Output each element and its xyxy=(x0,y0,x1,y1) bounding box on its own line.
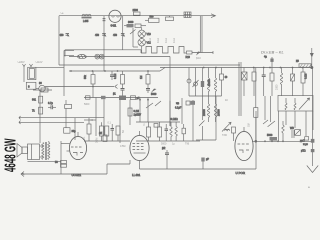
wire top arrow end xyxy=(207,14,216,18)
right vertical to ground arrow xyxy=(300,68,314,167)
svg-text:5000: 5000 xyxy=(84,103,90,106)
svg-text:6.1µF: 6.1µF xyxy=(175,107,182,110)
tuning arrow mid xyxy=(222,122,231,131)
resistor R11 xyxy=(301,68,308,97)
capacitor C6 dark xyxy=(196,68,216,141)
wire y141 center xyxy=(84,140,130,142)
IF coil W2 xyxy=(203,68,221,123)
svg-text:4648 GW: 4648 GW xyxy=(3,138,20,172)
switch arms right xyxy=(263,120,275,127)
bus wire B3 xyxy=(160,67,312,69)
bandfilter coil a xyxy=(285,98,287,110)
AF cluster capacitor C12 xyxy=(111,124,115,141)
box comp osc1 xyxy=(176,101,195,105)
wire y141.3 right xyxy=(252,140,313,142)
AF cluster resistor R18 xyxy=(116,126,120,141)
bus wire B4 xyxy=(69,68,165,72)
WB coil right xyxy=(290,127,294,138)
wire vertical x170 xyxy=(169,57,171,127)
capacitor C8 xyxy=(262,68,266,97)
rectifier tube G411 xyxy=(109,10,121,27)
resistor R12 xyxy=(32,96,43,103)
dark box c xyxy=(113,93,126,101)
svg-text:450: 450 xyxy=(60,34,65,37)
wire heater to arrow xyxy=(192,51,213,56)
crystal box X1 xyxy=(242,68,248,97)
fuse box on top line xyxy=(166,16,174,21)
svg-text:R10: R10 xyxy=(186,56,191,59)
tube UY11 xyxy=(235,127,253,175)
svg-text:L405: L405 xyxy=(83,20,89,23)
svg-text:0.1A: 0.1A xyxy=(165,38,168,43)
svg-text:LL481: LL481 xyxy=(132,173,141,177)
resistor R9 xyxy=(270,68,274,97)
svg-text:20000: 20000 xyxy=(203,109,206,116)
coil W5 xyxy=(282,121,284,141)
mains terminals xyxy=(23,64,33,82)
svg-text:450: 450 xyxy=(113,34,118,37)
Dr.v.EB text xyxy=(261,50,284,55)
bus wire B2 xyxy=(59,64,240,66)
AF cluster labels xyxy=(83,130,125,143)
bus wire B1 xyxy=(69,56,170,58)
box d xyxy=(131,96,140,100)
misc tiny value labels xyxy=(60,12,279,148)
frame tube3 xyxy=(255,111,257,169)
resistor R21 xyxy=(158,122,162,141)
svg-text:T96: T96 xyxy=(185,143,190,146)
junction dots right xyxy=(255,140,284,143)
boxes bottom right cluster xyxy=(303,137,309,146)
capacitor C15 near tube2 xyxy=(162,147,169,169)
transformer core xyxy=(45,142,46,160)
svg-text:450: 450 xyxy=(95,34,100,37)
box comp center small xyxy=(154,124,158,128)
IF coil W1 xyxy=(207,68,209,97)
switch arms center xyxy=(146,101,161,108)
choke L405 xyxy=(82,14,92,23)
rect near tube3 xyxy=(232,127,236,133)
svg-text:T/96: T/96 xyxy=(222,134,227,137)
resistor R8 xyxy=(252,68,256,97)
svg-text:20000: 20000 xyxy=(218,109,221,116)
bottom wire with arrow xyxy=(21,172,107,177)
output transformer frame xyxy=(28,144,40,160)
coil W4b xyxy=(175,122,177,141)
resistor box R2 top right of lamps xyxy=(145,16,159,23)
antenna arrow top right xyxy=(310,48,314,68)
plug component on top line xyxy=(184,12,191,18)
resistor R4 xyxy=(84,71,95,98)
svg-text:∿110V: ∿110V xyxy=(35,61,43,64)
wire vertical left drop xyxy=(58,16,60,65)
svg-text:U POR: U POR xyxy=(236,171,246,175)
resistor hatched on bus right xyxy=(296,60,312,68)
svg-text:5000: 5000 xyxy=(267,134,273,137)
capacitor C2 (on line x=59) xyxy=(60,33,70,37)
svg-text:20000: 20000 xyxy=(208,79,211,86)
svg-text:5000: 5000 xyxy=(161,143,167,146)
resistor R7 xyxy=(220,68,228,97)
wire y120 center xyxy=(84,119,96,121)
small rect a xyxy=(86,96,91,99)
fuse circle xyxy=(36,82,45,92)
svg-text:µΤΩ: µΤΩ xyxy=(301,150,306,153)
trimmer T1 xyxy=(187,68,191,97)
wire tube2 bottom xyxy=(107,160,256,174)
resistor R5 xyxy=(114,71,125,98)
svg-text:µΡ: µΡ xyxy=(206,158,209,161)
svg-text:0.1A: 0.1A xyxy=(157,38,160,43)
wire y49.8 xyxy=(65,50,141,57)
svg-text:∿220V: ∿220V xyxy=(17,61,25,64)
svg-text:UCH11: UCH11 xyxy=(72,173,82,177)
meander vertical labels xyxy=(149,38,176,43)
wire from electrolytic right xyxy=(36,51,118,97)
wire verticals osc xyxy=(170,98,193,141)
bandfilter shield box xyxy=(278,95,313,111)
svg-text:30µ: 30µ xyxy=(72,130,77,133)
svg-text:0.1M: 0.1M xyxy=(114,74,117,79)
lamp V13 xyxy=(138,27,151,37)
wire verticals right cluster xyxy=(265,96,313,141)
coil W4a xyxy=(170,122,172,141)
box C10 xyxy=(65,100,72,128)
svg-text:0.1A: 0.1A xyxy=(173,38,176,43)
resistor R13 xyxy=(32,107,43,114)
tube UCH11 xyxy=(69,132,86,177)
switch arm near lamps xyxy=(130,28,138,47)
wires speaker area xyxy=(28,141,62,174)
electrolytic block xyxy=(28,67,36,79)
transformer winding a xyxy=(42,143,44,160)
resistor row boxes under tube xyxy=(124,21,146,27)
small rect b dark xyxy=(101,96,106,99)
box component right cluster xyxy=(291,68,295,97)
wire mid bottom components xyxy=(277,140,279,142)
box C11 xyxy=(64,128,76,134)
transformer winding b xyxy=(48,143,50,160)
IF shield double line xyxy=(239,62,241,116)
svg-text:0.1M: 0.1M xyxy=(305,74,308,79)
box on y90 xyxy=(41,88,48,92)
heater meander resistor xyxy=(141,47,186,54)
svg-text:Dr.v.EB – KL: Dr.v.EB – KL xyxy=(261,50,284,55)
mains terminal labels xyxy=(17,61,43,64)
AF cluster resistor R16 xyxy=(100,122,104,141)
svg-text:β/10: β/10 xyxy=(196,57,201,60)
svg-text:V13: V13 xyxy=(147,33,152,36)
svg-text:1M: 1M xyxy=(140,76,143,79)
coil small dark xyxy=(225,129,230,130)
capacitor C4 xyxy=(110,71,114,80)
wire top horizontal main xyxy=(59,15,207,17)
svg-text:991: 991 xyxy=(32,99,37,102)
svg-text:0.7µ: 0.7µ xyxy=(48,102,53,105)
resistor R6 xyxy=(140,71,150,88)
svg-text:3000: 3000 xyxy=(128,21,134,24)
svg-text:µµΩ: µµΩ xyxy=(300,140,305,143)
svg-text:WB: WB xyxy=(290,127,294,130)
svg-text:5000: 5000 xyxy=(151,93,157,96)
capacitor C1 (on stub x=104) xyxy=(95,16,107,71)
capacitor C3 (stub x=121.5) xyxy=(113,16,125,50)
speaker xyxy=(17,144,28,158)
svg-text:500: 500 xyxy=(150,16,155,19)
junction dots bus B4 xyxy=(70,70,149,72)
wire center y97.5 xyxy=(84,97,158,99)
fuse pair on bus xyxy=(95,54,104,59)
AF cluster resistor R17 xyxy=(105,126,109,141)
resistor R14 xyxy=(128,108,141,117)
vertical wires center xyxy=(96,98,130,144)
svg-text:0.3M: 0.3M xyxy=(96,138,99,143)
wire grid lines left xyxy=(19,116,104,124)
svg-text:2000: 2000 xyxy=(276,84,279,90)
svg-text:G411: G411 xyxy=(111,25,117,28)
svg-text:ΩM: ΩM xyxy=(248,123,251,127)
ground arrow V xyxy=(307,166,318,173)
wire y96 connecting xyxy=(189,95,222,97)
coil W3 xyxy=(280,68,282,97)
resistor R1 on top line xyxy=(133,9,141,15)
resistor above tube2 xyxy=(99,132,107,142)
svg-text:ΩZ: ΩZ xyxy=(99,132,103,135)
switch block xyxy=(26,82,36,89)
resistor box R19 xyxy=(139,98,149,123)
capacitor boxes left of tube1 xyxy=(55,143,70,167)
capacitor C9 xyxy=(48,102,56,109)
resistor R22 xyxy=(254,68,258,142)
wire y122 and label xyxy=(136,118,180,122)
bandfilter coil b xyxy=(294,98,296,110)
wire left mid frame xyxy=(33,90,52,143)
svg-text:0.1MΩ: 0.1MΩ xyxy=(171,118,178,121)
resistor R3 after meander xyxy=(186,51,193,59)
tube UCL11 xyxy=(130,131,149,177)
capacitor C13 xyxy=(165,124,169,141)
wire y141 right xyxy=(136,140,200,142)
rect comp center xyxy=(182,124,186,141)
hatched box right xyxy=(295,130,301,136)
corner wires upper left of bus xyxy=(64,51,74,56)
capacitor C7 above bus xyxy=(264,56,274,68)
trimmer T2 xyxy=(193,68,199,97)
lamp V12 xyxy=(138,38,151,54)
capacitor C14 dark xyxy=(267,134,277,141)
svg-text:0.1A: 0.1A xyxy=(149,38,152,43)
svg-text:0.5M: 0.5M xyxy=(120,145,125,148)
vertical wire x75 xyxy=(74,118,76,140)
capacitor C5 with arrow xyxy=(146,89,157,97)
svg-text:2000: 2000 xyxy=(133,9,139,12)
resistor near bottom mid xyxy=(201,158,209,170)
choke Dr on bus xyxy=(78,55,87,59)
AF cluster resistor R15 xyxy=(87,118,91,141)
junction dots bus B3 xyxy=(203,66,313,69)
double vertical line barretter xyxy=(200,16,202,53)
tuning arrow xyxy=(299,98,310,110)
resistor R20 xyxy=(147,122,151,141)
